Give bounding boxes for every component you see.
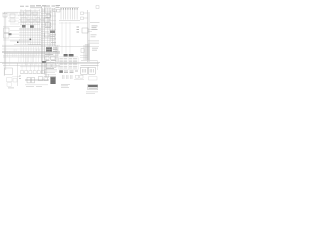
top connector pin wires: [61, 8, 77, 19]
right flat box: [89, 77, 98, 80]
bottom-left tick marks: [8, 76, 21, 89]
right vertical pair: [84, 10, 89, 62]
center extra text dashes: [45, 27, 56, 43]
right wires mid: [88, 41, 99, 44]
right stub wires: [88, 30, 92, 32]
center top text dashes: [45, 5, 55, 8]
center component box C1b: [46, 15, 51, 18]
bottom-left connector boxes: [7, 77, 21, 86]
top header text row: [20, 5, 46, 8]
center dense text dashes: [45, 48, 58, 70]
harness rung ticks: [5, 47, 58, 66]
component block left-center: horizontal wiring texture: [4, 11, 41, 45]
center component box C2b: [46, 23, 51, 26]
harness vertical drops: [21, 47, 58, 66]
top text stack: [56, 5, 61, 7]
relay box K1: [21, 18, 27, 22]
relay box K3: [36, 18, 40, 22]
bottom connector row: [21, 71, 45, 74]
wire above battery: [44, 75, 56, 77]
wire left horizontals: [2, 13, 20, 40]
center dark contact strip: [50, 31, 55, 34]
switch box S3: [33, 12, 37, 15]
wire right drop: [96, 60, 98, 70]
center vertical pair: [50, 8, 56, 46]
relay box K2: [29, 19, 34, 22]
center dark marks: [42, 61, 46, 63]
wire bottom row line: [20, 72, 46, 74]
right top small box: [96, 6, 99, 9]
right text dashes lower: [91, 35, 97, 38]
right small box mid: [81, 49, 84, 53]
right mid horizontals: [80, 56, 88, 58]
junction dot A: [30, 39, 32, 41]
table column rules: [59, 58, 79, 70]
connector block dark A: [22, 25, 26, 28]
top connector pin heads: [61, 8, 78, 9]
bottom middle wires: [25, 79, 49, 85]
wiring color-code table: [60, 58, 78, 68]
bottom connector boxes middle: [27, 77, 48, 83]
center dark cluster CDI: [46, 47, 52, 52]
legend table with dark header: [88, 85, 98, 90]
right component box R1: [82, 28, 88, 33]
component block left-center: vertical wires: [21, 9, 40, 45]
dark code block: [59, 70, 63, 73]
fuse block dark pair: [64, 54, 74, 56]
note text lower center: [61, 84, 70, 88]
connector fringe marks: [77, 27, 80, 33]
left small box 3: [10, 19, 15, 22]
junction dot B: [17, 42, 19, 44]
right small marks top: [81, 12, 88, 20]
right mid text dashes: [92, 48, 98, 51]
center component box C2: [44, 18, 49, 22]
top small blocks center: [53, 9, 60, 12]
center small boxes row: [45, 57, 56, 68]
right bottom marks: [74, 75, 84, 79]
center component box C1: [45, 8, 51, 13]
footer fine print: [86, 92, 98, 94]
switch box S1: [20, 12, 24, 15]
right wire bundle: [85, 44, 89, 60]
switch box S2: [26, 11, 31, 15]
left component box L1: [4, 28, 10, 33]
wire drops to connector row: [22, 64, 43, 71]
center block horizontal wiring texture: [41, 10, 56, 44]
left small box top: [3, 14, 7, 18]
wire darker streaks: [19, 29, 41, 44]
center component box C3: [45, 33, 50, 37]
center vertical bus: [41, 6, 49, 74]
connector block dark B: [30, 25, 34, 28]
wire under fuse blocks: [59, 56, 78, 58]
left small box 2: [10, 14, 15, 18]
top connector rail line: [59, 7, 79, 9]
wire bottom-left vertical: [17, 63, 19, 86]
wire left vertical feeders: [4, 12, 6, 76]
left dark contact: [9, 33, 12, 35]
code dashes: [64, 71, 78, 73]
main harness bus: [0, 45, 100, 67]
right legend box 2: [88, 67, 95, 74]
right top wire: [90, 21, 100, 23]
legend text row: [81, 60, 99, 66]
wire fringe left: [8, 15, 19, 24]
center wires lower: [44, 60, 57, 78]
right legend box 1: [81, 67, 88, 74]
right text marks: [92, 26, 98, 30]
center vertical drops lower: [48, 45, 57, 64]
bottom-left component box: [5, 68, 13, 75]
bottom faint text: [26, 85, 42, 88]
battery dark box: [50, 77, 55, 84]
left component box L2: [4, 34, 10, 39]
wire feeders to fuse blocks: [62, 22, 70, 54]
top connector rail line lower: [59, 21, 88, 24]
ground symbol group: [63, 75, 72, 79]
